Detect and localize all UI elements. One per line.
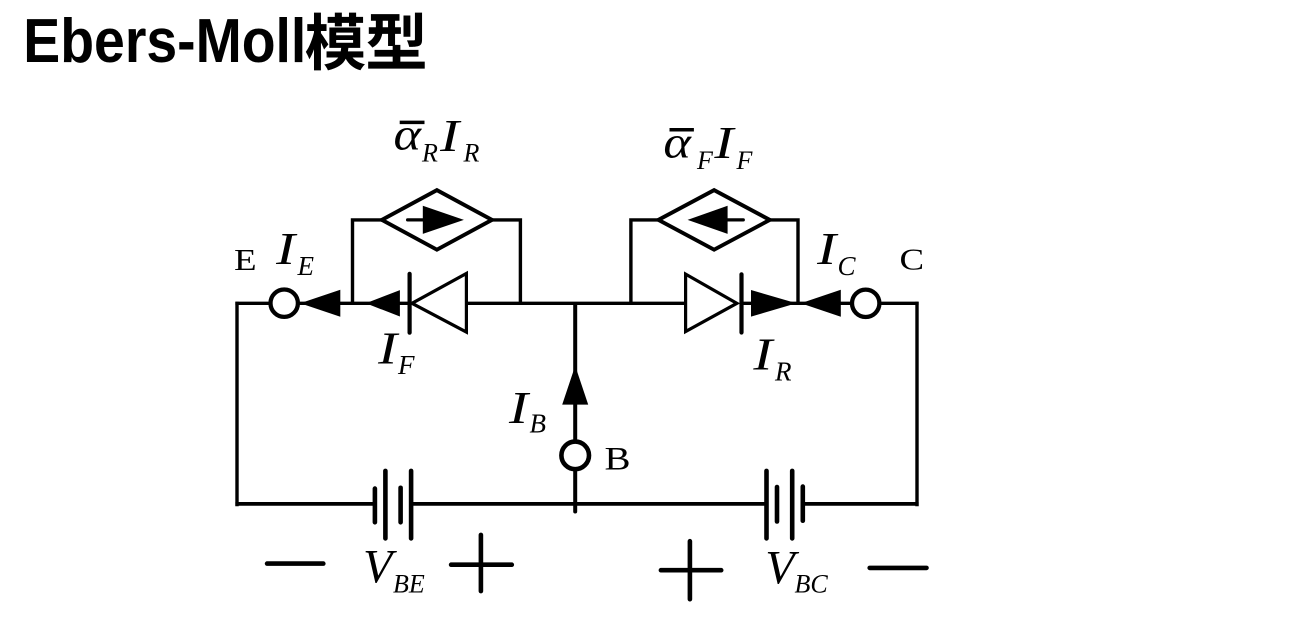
title CJK char MO (模) [306, 13, 365, 71]
wire right leg of source G2 [770, 220, 798, 303]
wire base branch lower (through bottom wire) [573, 471, 577, 512]
current arrow I_B (points up) [562, 366, 588, 405]
svg-text:I: I [816, 223, 840, 274]
svg-text:BC: BC [795, 570, 829, 599]
battery V_BE plate long 2 [409, 471, 414, 539]
wire bottom right segment [803, 502, 919, 506]
svg-text:R: R [463, 139, 480, 168]
minus sign right [870, 566, 927, 571]
label I_E [275, 223, 315, 281]
wire right vertical (C to bottom) [915, 302, 918, 507]
title CJK char XING (型) [367, 13, 424, 69]
wire left leg of source G1 [353, 220, 382, 303]
svg-text:R: R [421, 138, 438, 167]
wire bottom left segment [235, 502, 375, 506]
svg-text:I: I [377, 322, 401, 373]
label I_R [752, 329, 792, 387]
battery V_BC plate long 1 [764, 471, 769, 539]
label alpha_F I_F overbar [670, 128, 694, 132]
svg-text:C: C [900, 242, 925, 277]
battery V_BE plate short 1 [373, 489, 378, 523]
svg-text:α: α [394, 109, 422, 160]
label I_B [508, 382, 546, 439]
wire main E-to-diode segment [298, 302, 410, 305]
current source G1 diamond (alpha_R I_R) [382, 190, 492, 250]
svg-text:B: B [530, 409, 547, 439]
label V_BC [765, 542, 828, 599]
svg-text:I: I [508, 382, 532, 433]
svg-text:I: I [713, 117, 737, 168]
current source G1 arrow (points right) [408, 206, 464, 234]
svg-text:Ebers-Moll: Ebers-Moll [23, 7, 306, 76]
wire C terminal stub [879, 302, 918, 305]
wire base branch upper [573, 303, 577, 440]
label I_C [816, 223, 857, 281]
current source G2 diamond (alpha_F I_F) [658, 190, 769, 250]
current source G2 arrow (points left) [688, 206, 744, 234]
diode D2 triangle (points right) [686, 274, 737, 331]
current arrow I_E (points left) [300, 290, 340, 317]
svg-text:F: F [397, 350, 415, 380]
battery V_BC plate long 2 [790, 471, 795, 539]
svg-text:V: V [363, 541, 397, 594]
svg-text:R: R [774, 357, 792, 387]
current arrow I_F (points left) [366, 290, 400, 316]
wire right leg of source G1 [492, 220, 520, 303]
wire bottom middle segment [411, 502, 766, 506]
diode D1 cathode bar [408, 274, 412, 333]
svg-text:BE: BE [393, 570, 425, 599]
wire left leg of source G2 [631, 220, 659, 303]
wire E terminal stub [235, 302, 270, 305]
svg-text:F: F [736, 146, 754, 175]
terminal B circle [561, 442, 589, 470]
wire left vertical (E to bottom) [235, 302, 238, 507]
label V_BE [363, 541, 425, 599]
svg-text:E: E [297, 251, 315, 281]
terminal C circle [852, 290, 879, 317]
current arrow I_C (points left) [801, 290, 841, 317]
plus sign right [661, 541, 721, 599]
battery V_BC plate short 2 [800, 487, 805, 521]
svg-text:α: α [663, 116, 691, 167]
svg-text:I: I [439, 110, 463, 161]
svg-text:E: E [234, 242, 257, 277]
svg-text:B: B [605, 441, 631, 477]
svg-text:I: I [752, 329, 776, 380]
minus sign left [267, 561, 323, 566]
terminal E circle [271, 290, 298, 317]
diode D2 cathode bar [739, 274, 743, 332]
diode D1 triangle (points left) [412, 274, 466, 333]
label alpha_R I_R [394, 109, 480, 168]
battery V_BE plate long 1 [383, 471, 388, 539]
label alpha_R I_R overbar [400, 121, 425, 125]
svg-text:F: F [696, 146, 714, 175]
label alpha_F I_F [663, 116, 753, 175]
wire main diode-to-C segment [742, 302, 853, 305]
plus sign left [451, 535, 512, 591]
battery V_BE plate short 2 [398, 488, 403, 523]
wire main middle segment (between diodes) [466, 302, 685, 305]
svg-text:I: I [275, 223, 299, 274]
svg-text:C: C [838, 251, 857, 281]
battery V_BC plate short 1 [775, 487, 780, 522]
label I_F [377, 322, 415, 379]
current arrow I_R (points right) [751, 290, 796, 317]
